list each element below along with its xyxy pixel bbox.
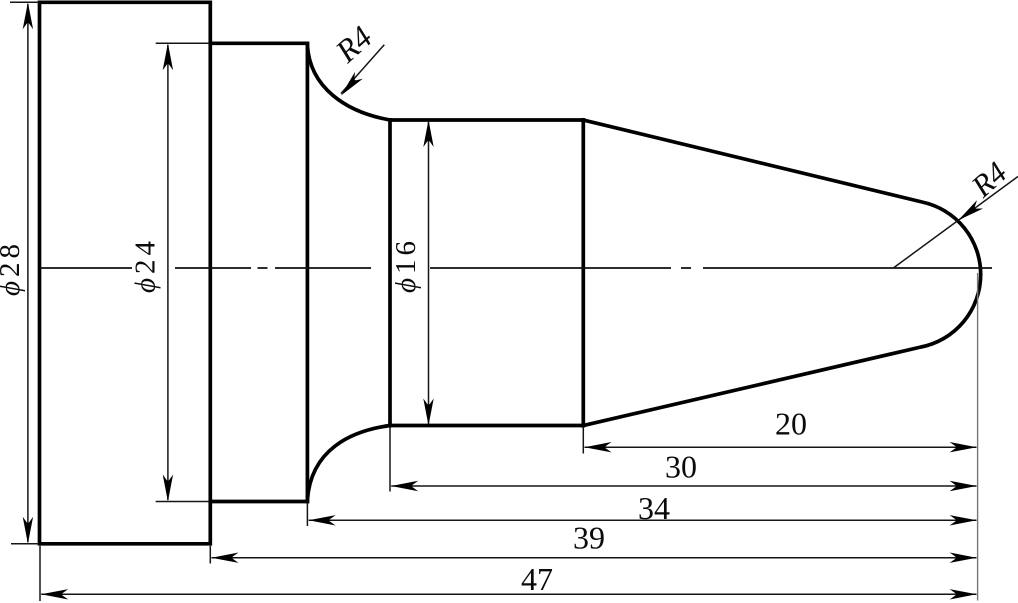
dim line 20 [585, 446, 977, 448]
ext line at x390 [389, 428, 391, 492]
leader R4 left [341, 45, 384, 94]
phi24 section right edge [306, 43, 310, 501]
dim line 30 [391, 485, 976, 487]
arrow phi24 up [163, 43, 173, 70]
dim line phi24 [167, 45, 169, 500]
arrow 39 right [950, 553, 977, 563]
svg-text:20: 20 [775, 406, 807, 442]
arrow 47 left [41, 589, 68, 599]
ext line at x210 [209, 546, 211, 564]
fillet R4 bottom [307, 426, 390, 500]
svg-text:ϕ16: ϕ16 [390, 237, 422, 293]
svg-text:39: 39 [573, 520, 605, 556]
arrow 20 left [585, 442, 612, 452]
arrow 30 right [950, 481, 977, 491]
ext line at taper start x583 [582, 428, 584, 454]
centerline [40, 267, 992, 269]
arrow leader R4 left [337, 72, 363, 99]
svg-text:30: 30 [665, 449, 697, 485]
dim line phi28 [27, 4, 29, 542]
arrow 30 left [391, 481, 418, 491]
ext line bottom flange left [11, 543, 39, 545]
arrow 20 right [950, 442, 977, 452]
ext line at x307 [306, 504, 308, 527]
svg-text:ϕ28: ϕ28 [0, 240, 26, 296]
dim line 39 [212, 557, 977, 559]
leader R4 right [894, 177, 1018, 268]
svg-text:ϕ24: ϕ24 [130, 237, 162, 293]
dim line phi16 [428, 122, 430, 424]
arrow leader R4 right [955, 200, 983, 224]
arrow phi16 up [423, 120, 433, 147]
svg-text:34: 34 [638, 490, 670, 526]
ext line at tip x977.6 [977, 273, 979, 601]
ext line phi24 top [156, 42, 209, 44]
arrow phi28 down [23, 517, 33, 544]
ext line top flange left [10, 1, 39, 3]
arrow 34 left [309, 515, 336, 525]
taper cone and R4 tip arc [583, 120, 980, 426]
dim line 34 [309, 519, 977, 521]
ext line at x40 [39, 546, 41, 601]
svg-text:47: 47 [521, 561, 553, 597]
arrow 47 right [950, 589, 977, 599]
arrow 39 left [212, 553, 239, 563]
fillet R4 top [307, 46, 390, 121]
dim line 47 [41, 593, 976, 595]
phi16 top edge [390, 118, 583, 122]
flange phi28 body [40, 2, 211, 544]
phi16 left edge [388, 120, 392, 426]
phi24 section bottom edge [210, 500, 307, 504]
ext line phi24 bottom [156, 501, 209, 503]
arrow 34 right [950, 515, 977, 525]
taper shoulder edge [581, 120, 585, 426]
arrow phi28 up [23, 2, 33, 29]
phi16 bottom edge [390, 424, 583, 428]
arrow phi16 down [423, 399, 433, 426]
phi24 section top edge [210, 41, 307, 45]
arrow phi24 down [163, 475, 173, 502]
